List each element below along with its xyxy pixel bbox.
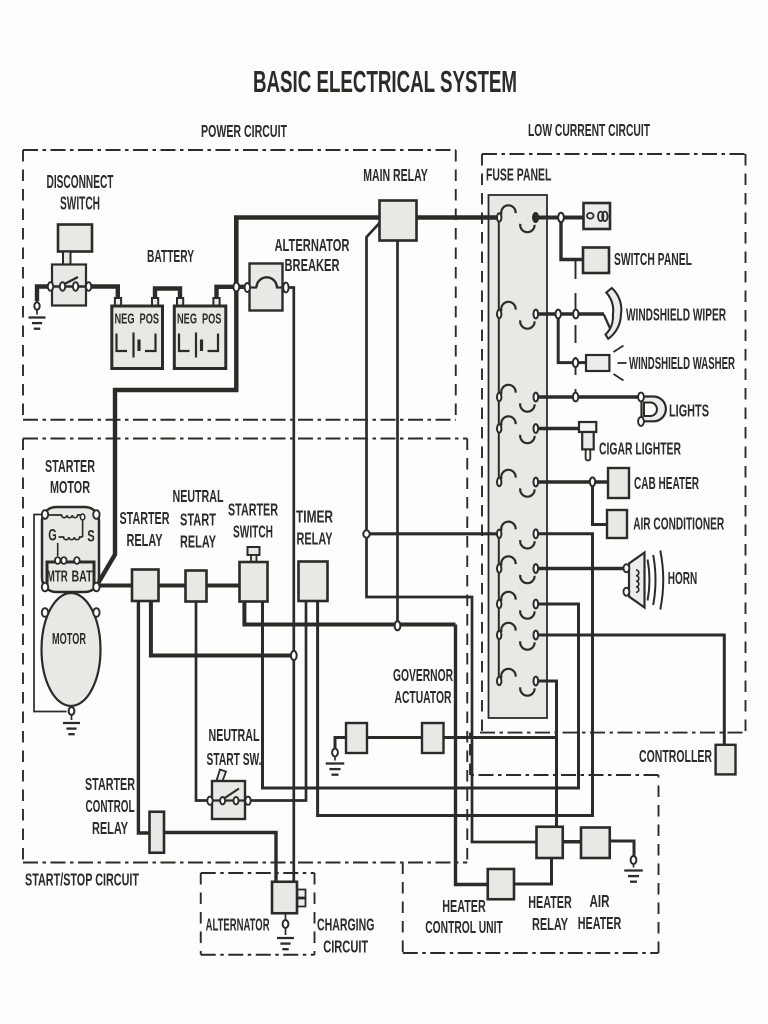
svg-text:BAT: BAT (72, 569, 93, 586)
svg-text:POWER CIRCUIT: POWER CIRCUIT (201, 121, 287, 141)
svg-text:BASIC ELECTRICAL SYSTEM: BASIC ELECTRICAL SYSTEM (253, 64, 517, 99)
heater circuit boundary box (403, 733, 659, 953)
wire: air heater to ground (610, 841, 634, 856)
air heater box (581, 828, 610, 859)
node: fuse row 1 junction (558, 213, 564, 222)
neutral start relay box (186, 571, 207, 602)
controller box (716, 745, 736, 775)
wire: starter switch lower-right to fuse row 8 (263, 601, 579, 788)
wire: main relay lower-left branch to fuse bus B and heater relay (367, 223, 537, 842)
svg-text:RELAY: RELAY (92, 818, 128, 838)
svg-text:MTR: MTR (47, 569, 68, 586)
node: lights row dashed-line junction (573, 393, 578, 402)
wire: timer relay right pin to fuse row 6 output (318, 534, 593, 816)
start/stop circuit boundary box (23, 439, 467, 863)
svg-text:RELAY: RELAY (297, 529, 333, 549)
wire: node up to main relay feed (236, 218, 379, 289)
svg-text:SWITCH: SWITCH (60, 194, 100, 214)
svg-text:ACTUATOR: ACTUATOR (395, 687, 452, 707)
starter control relay box (150, 812, 165, 853)
windshield wiper icon (606, 288, 622, 339)
governor actuator box 2 (422, 723, 444, 753)
wire: wiper junction to windshield washer (558, 316, 586, 363)
svg-text:CONTROLLER: CONTROLLER (639, 746, 712, 766)
timer relay box (299, 562, 328, 602)
svg-text:RELAY: RELAY (127, 530, 163, 550)
svg-text:START SW.: START SW. (207, 749, 262, 769)
svg-text:GOVERNOR: GOVERNOR (393, 665, 453, 685)
svg-text:DISCONNECT: DISCONNECT (47, 172, 114, 192)
wire: fuse row 3 to lights (538, 395, 639, 398)
alternator (272, 882, 306, 914)
fuse bus B (rows 6-10) (498, 534, 500, 681)
wire: cab heater junction down to air conditioner (593, 483, 608, 525)
svg-text:CONTROL: CONTROL (86, 796, 135, 816)
wire: main relay lower-right down to starter switch line node (396, 241, 399, 624)
svg-text:G: G (48, 527, 57, 545)
alternator breaker (233, 264, 288, 311)
svg-text:MOTOR: MOTOR (52, 631, 86, 648)
svg-text:BREAKER: BREAKER (285, 255, 340, 275)
svg-text:START: START (180, 510, 216, 530)
svg-text:HEATER: HEATER (528, 892, 572, 912)
svg-text:HEATER: HEATER (442, 896, 486, 916)
wire: starter relay lower-right to node on breaker line (151, 601, 291, 656)
chassis ground at disconnect switch (29, 301, 46, 329)
svg-text:HORN: HORN (668, 568, 698, 588)
svg-text:HEATER: HEATER (578, 913, 622, 933)
heater control unit box (488, 869, 514, 899)
fuse F5 (497, 470, 538, 497)
wire: fuse row 10 down to heater relay coil (538, 681, 557, 827)
svg-text:ALTERNATOR: ALTERNATOR (275, 235, 350, 255)
fuse F1 (497, 205, 538, 232)
svg-text:NEUTRAL: NEUTRAL (173, 486, 224, 506)
svg-text:WINDSHIELD WASHER: WINDSHIELD WASHER (629, 353, 735, 373)
svg-text:CIGAR LIGHTER: CIGAR LIGHTER (599, 439, 681, 459)
disconnect switch (48, 225, 92, 306)
wire: fuse row 7 to horn (538, 567, 624, 570)
wire: neutral start switch to timer relay left pin (250, 601, 306, 801)
svg-text:AIR: AIR (590, 891, 610, 911)
hour meter (584, 203, 611, 229)
node: wiper row junction (556, 310, 561, 319)
fuse F2 (497, 302, 538, 329)
fuse panel box (489, 195, 548, 718)
wire: governor actuator circuit from ground to fuse row 10 (335, 738, 557, 750)
wire: main relay node to fuse panel row 6 (367, 532, 498, 535)
wire: alternator breaker output down to alternator (288, 288, 293, 882)
wire: fuse row 9 to controller (538, 635, 724, 745)
ground at governor actuator (326, 749, 345, 775)
fuse F10 (497, 669, 538, 696)
starter solenoid (42, 507, 100, 592)
low current circuit boundary box (480, 154, 746, 733)
switch panel box (583, 248, 609, 274)
starter switch box (240, 547, 268, 602)
svg-text:MAIN RELAY: MAIN RELAY (363, 165, 428, 185)
fuse bus A (rows 1-5) (498, 219, 500, 482)
svg-text:CHARGING: CHARGING (317, 915, 375, 935)
svg-text:TIMER: TIMER (296, 507, 333, 527)
svg-text:SWITCH: SWITCH (233, 522, 273, 542)
node: washer row dashed-line junction (573, 358, 578, 367)
svg-text:LIGHTS: LIGHTS (669, 401, 709, 421)
wire: solenoid MTR loop to motor ground (34, 515, 67, 712)
starter motor body (42, 593, 101, 706)
svg-text:S: S (87, 528, 95, 546)
fuse F7 (497, 556, 538, 583)
svg-text:RELAY: RELAY (532, 914, 568, 934)
main relay (380, 201, 417, 241)
fuse F8 (497, 592, 538, 619)
wire: starter relay to neutral start relay (159, 584, 186, 588)
wire: fuse row 4 to cigar lighter (538, 427, 580, 430)
wire: battery 2 POS up to breaker node (217, 287, 246, 297)
svg-text:NEG: NEG (177, 311, 197, 328)
svg-text:STARTER: STARTER (85, 774, 135, 794)
node: cab heater junction (590, 477, 595, 486)
air conditioner box (607, 510, 627, 538)
wire: heater control unit to heater relay bottom (514, 858, 552, 884)
svg-text:POS: POS (140, 311, 160, 328)
wire: disconnect switch to battery 1 NEG terminal (89, 287, 118, 298)
wire: disconnect switch to chassis ground (37, 287, 50, 302)
starter relay box (132, 570, 159, 602)
svg-text:STARTER: STARTER (120, 508, 170, 528)
windshield washer box (586, 346, 627, 381)
svg-text:POS: POS (202, 311, 222, 328)
fuse F6 (497, 522, 538, 549)
wire: starter switch feed down to heater control unit (456, 625, 488, 885)
fuse F9 (497, 623, 538, 650)
svg-text:BATTERY: BATTERY (147, 246, 194, 266)
dashed accessory wire below switch panel (575, 261, 577, 397)
ground at starter motor (63, 706, 80, 734)
svg-text:SWITCH PANEL: SWITCH PANEL (614, 249, 692, 269)
svg-text:CONTROL UNIT: CONTROL UNIT (425, 917, 503, 937)
governor actuator box 1 (346, 723, 367, 753)
wire: fuse row 2 to windshield wiper (538, 312, 604, 315)
svg-text:STARTER: STARTER (228, 500, 278, 520)
wire: starter BAT terminal to starter relay (98, 584, 132, 588)
wire: starter relay lower-left to starter control relay (138, 601, 150, 833)
wire: starter switch lower-left long feed (244, 601, 455, 625)
battery 1 (112, 298, 163, 369)
svg-text:NEUTRAL: NEUTRAL (209, 725, 260, 745)
svg-text:NEG: NEG (115, 311, 135, 328)
power circuit boundary box (23, 150, 456, 420)
wire: wiper arm link (604, 315, 611, 331)
svg-text:AIR CONDITIONER: AIR CONDITIONER (633, 514, 724, 534)
node: wiper row dashed-line junction (573, 310, 578, 319)
heater relay box (537, 827, 563, 858)
svg-text:RELAY: RELAY (180, 532, 216, 552)
svg-text:FUSE PANEL: FUSE PANEL (486, 165, 552, 185)
charging circuit boundary box (201, 873, 315, 955)
wire: battery negative cable down to starter BAT terminal (99, 285, 237, 583)
wire: battery 1 POS to battery 2 NEG (series link) (155, 289, 180, 298)
cab heater box (608, 468, 629, 498)
wire: starter control relay output down to alternator R terminal (164, 833, 276, 882)
fuse F3 (497, 385, 538, 412)
node: main relay drop on starter switch wire (395, 621, 401, 630)
horn icon (624, 551, 664, 610)
wire: neutral start relay down to neutral start switch (196, 601, 208, 801)
lights lamp (638, 393, 666, 426)
neutral start switch (207, 770, 250, 820)
cigar lighter icon (579, 422, 596, 460)
wire: fuse row 1 to hour meter (538, 216, 584, 220)
wire: heater relay to air heater (563, 840, 581, 843)
svg-text:START/STOP CIRCUIT: START/STOP CIRCUIT (25, 870, 139, 890)
node: breaker line at starter relay wire (291, 651, 297, 660)
battery 2 (174, 298, 226, 369)
svg-text:STARTER: STARTER (45, 456, 95, 476)
svg-text:LOW CURRENT CIRCUIT: LOW CURRENT CIRCUIT (528, 120, 650, 140)
wire: neutral start relay to starter switch (207, 584, 240, 588)
svg-text:CAB HEATER: CAB HEATER (634, 473, 699, 493)
svg-text:CIRCUIT: CIRCUIT (323, 937, 368, 957)
ground at air heater (624, 856, 643, 882)
wire: fuse row 5 to cab heater (538, 480, 608, 483)
wire: main relay to fuse panel row 1 (417, 215, 498, 220)
fuse F4 (497, 416, 538, 443)
svg-text:ALTERNATOR: ALTERNATOR (206, 915, 270, 935)
ground at alternator (277, 913, 294, 949)
svg-text:MOTOR: MOTOR (50, 477, 90, 497)
wire: row 1 junction down to switch panel (561, 219, 583, 260)
node: main relay branch to fuse row 6 (363, 530, 369, 537)
svg-text:WINDSHIELD WIPER: WINDSHIELD WIPER (626, 305, 726, 325)
